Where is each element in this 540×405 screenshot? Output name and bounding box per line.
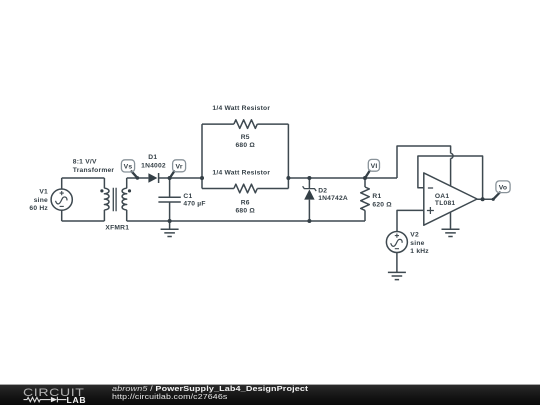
wire secondary bottom rail [127, 220, 365, 222]
junction node R5R6 left [200, 176, 204, 180]
svg-text:680 Ω: 680 Ω [235, 142, 255, 149]
op-amp V- stub and ground [442, 212, 460, 236]
zener D2 cathode bar [303, 186, 317, 191]
junction node output [481, 197, 485, 201]
op-amp output wire [477, 198, 493, 200]
ground below C1 [161, 221, 179, 237]
resistor R1 [364, 178, 366, 221]
svg-text:D2: D2 [318, 188, 327, 195]
svg-text:LAB: LAB [67, 395, 87, 405]
svg-text:1/4 Watt Resistor: 1/4 Watt Resistor [212, 105, 270, 112]
CircuitLab logo [0, 384, 110, 405]
flag foot Vs [136, 176, 140, 180]
transformer secondary [126, 178, 128, 188]
svg-text:1/4 Watt Resistor: 1/4 Watt Resistor [212, 169, 270, 176]
bottom bar [0, 384, 540, 405]
flag box Vr [173, 160, 186, 172]
svg-text:1 kHz: 1 kHz [410, 248, 429, 255]
wire V1 bottom to transformer [62, 220, 105, 222]
svg-text:680 Ω: 680 Ω [235, 208, 255, 215]
resistor R5 [202, 123, 288, 125]
flag stem Vs [132, 171, 138, 177]
wire VI up and over to op-amp V+ [397, 146, 451, 178]
transformer dot primary [100, 189, 103, 192]
svg-text:8:1 V/V: 8:1 V/V [73, 159, 97, 166]
svg-text:60 Hz: 60 Hz [29, 205, 48, 212]
wire D1 to R5R6 left junction [159, 177, 202, 179]
transformer dot secondary [128, 189, 131, 192]
op-amp minus sign [428, 187, 433, 189]
flag foot Vo [492, 198, 495, 201]
junction node Vr [168, 176, 172, 180]
wire V2 to non-inverting input [397, 210, 424, 231]
svg-text:Transformer: Transformer [73, 167, 115, 174]
feedback wire output to inverting input [418, 156, 483, 199]
capacitor C1 [169, 178, 171, 221]
zener D2 triangle [304, 189, 314, 199]
svg-text:Vo: Vo [499, 185, 508, 192]
svg-text:XFMR1: XFMR1 [105, 225, 129, 232]
svg-text:Vr: Vr [175, 164, 182, 171]
svg-text:620 Ω: 620 Ω [372, 201, 392, 208]
zener D2 branch wires [308, 178, 310, 221]
svg-text:R1: R1 [372, 193, 381, 200]
resistor branch verticals [202, 124, 288, 188]
svg-text:R6: R6 [241, 199, 250, 206]
V1 sine wave [56, 197, 67, 204]
svg-text:C1: C1 [183, 193, 192, 200]
V1 minus sign [60, 205, 64, 207]
flag box Vo [496, 181, 510, 193]
svg-text:V2: V2 [410, 232, 419, 239]
op-amp OA1 triangle [424, 173, 477, 225]
svg-text:470 µF: 470 µF [183, 201, 205, 208]
wire R5R6 right junction to VI corner [288, 177, 397, 179]
svg-text:sine: sine [34, 197, 48, 204]
diode D1 triangle [148, 173, 157, 182]
flag box Vs [121, 160, 134, 172]
wire V2 bottom and ground [388, 253, 406, 280]
svg-text:1N4002: 1N4002 [141, 163, 166, 170]
svg-text:1N4742A: 1N4742A [318, 195, 348, 202]
source V2 [386, 232, 407, 253]
flag stem Vo [493, 193, 500, 200]
transformer XFMR1 primary [103, 178, 105, 188]
svg-text:D1: D1 [148, 154, 157, 161]
resistor R6 [202, 188, 288, 190]
svg-text:VI: VI [371, 163, 378, 170]
svg-text:R5: R5 [241, 134, 250, 141]
flag stem Vr [170, 171, 174, 177]
junction node D2 top [307, 176, 311, 180]
V1 plus sign [60, 191, 64, 195]
flag stem VI [365, 171, 369, 178]
svg-text:TL081: TL081 [435, 200, 455, 207]
svg-text:sine: sine [410, 240, 424, 247]
wire V1 top to transformer [62, 177, 105, 179]
junction node C1 ground [168, 219, 172, 223]
op-amp plus sign [427, 207, 434, 214]
junction node D2 bottom [307, 219, 311, 223]
flag box VI [368, 159, 379, 171]
junction node R5R6 right [286, 176, 290, 180]
svg-text:V1: V1 [39, 189, 48, 196]
transformer core [113, 188, 116, 211]
wire secondary top to D1 [127, 177, 149, 179]
diode D1 cathode bar [158, 173, 160, 183]
junction node VI [363, 176, 367, 180]
source V1 [51, 189, 72, 210]
wire hop over feedback [451, 153, 454, 158]
svg-text:Vs: Vs [124, 164, 133, 171]
